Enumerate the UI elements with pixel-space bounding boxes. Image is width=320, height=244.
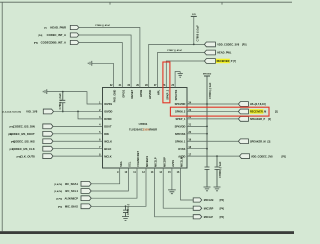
- ground G7 pin15: [168, 190, 176, 194]
- svg-text:AVSS: AVSS: [171, 160, 175, 167]
- wire HEAD_PWL net: [158, 53, 205, 88]
- svg-text:CODEC_I2S_DIN: CODEC_I2S_DIN: [13, 125, 35, 129]
- junction SPKVDD pin21: [206, 125, 208, 127]
- wire RECEIVER_M net: [187, 110, 238, 112]
- svg-text:HEAD_PWL: HEAD_PWL: [217, 51, 232, 55]
- connector HEAD_PWL: [204, 50, 215, 55]
- selection box pin26 SPKP_2: [163, 62, 170, 103]
- wire CODECDBB_INT_A net: [79, 43, 122, 88]
- ground G1 left-facing: [88, 61, 92, 66]
- wire VIO_1V8 to pin2: [54, 110, 103, 112]
- wire DVDD branch: [78, 111, 103, 118]
- wire CODEC_I2S_DOUT to IC: [53, 133, 103, 135]
- wire SPEAKER_M net: [187, 140, 238, 142]
- svg-text:[3,4,P4]: [3,4,P4]: [54, 183, 62, 186]
- junction SPKVDD pin24: [206, 103, 208, 105]
- svg-text:[3]: [3]: [268, 119, 271, 121]
- svg-text:SPKVSS: SPKVSS: [174, 90, 178, 101]
- svg-text:[3]: [3]: [275, 112, 278, 114]
- wire MIC1LP net: [155, 168, 194, 217]
- svg-text:WCLK: WCLK: [104, 139, 112, 143]
- connector CODEC_INT_A: [70, 33, 79, 37]
- wire VDD_CODEC_2V8 net: [187, 155, 240, 157]
- svg-text:MIC1RP: MIC1RP: [162, 157, 166, 167]
- wire pin25 SPKVSS stub: [175, 72, 180, 88]
- IC U7801 body TLV320AIC3100IRHBR: [103, 88, 188, 169]
- wire CLK_OUT8 to IC: [53, 155, 103, 157]
- wire CODEC_I2S_WS to IC: [53, 140, 103, 142]
- svg-text:SPKM_2: SPKM_2: [175, 110, 186, 114]
- svg-text:SPKVDD: SPKVDD: [175, 102, 186, 106]
- svg-text:SPKP_1: SPKP_1: [175, 117, 186, 121]
- connector SPEAKER_P: [238, 117, 248, 122]
- connector HEAD_PWR: [70, 25, 79, 29]
- connector CODEC_I2S_WS: [43, 139, 53, 144]
- highlight RECEIVER_P: [216, 59, 230, 64]
- wire pin15 AVSS to gnd: [171, 168, 173, 190]
- wire HS net: [187, 103, 238, 105]
- svg-text:TLV320AIC3100IRHBR: TLV320AIC3100IRHBR: [129, 127, 158, 131]
- svg-text:[3,4,P4]: [3,4,P4]: [54, 190, 62, 193]
- svg-text:SCL: SCL: [128, 161, 132, 167]
- connector MIC1LP: [193, 215, 202, 219]
- svg-text:AUX/MICP: AUX/MICP: [65, 196, 79, 200]
- wire pin20 stub: [187, 133, 207, 135]
- svg-text:CODEC_I2S_WS: CODEC_I2S_WS: [13, 139, 35, 143]
- capacitor C7802: [60, 92, 65, 112]
- svg-text:RECEIVER_P: RECEIVER_P: [217, 60, 233, 63]
- wire CODEC_I2S_CLK to IC: [53, 148, 103, 150]
- svg-text:MIC1LM: MIC1LM: [180, 157, 184, 167]
- svg-text:[P4]: [P4]: [220, 199, 225, 202]
- svg-text:RESET: RESET: [130, 89, 134, 98]
- svg-text:IOVSS: IOVSS: [104, 102, 112, 106]
- capacitor C7804: [123, 206, 128, 216]
- svg-text:DIN: DIN: [104, 132, 109, 136]
- svg-text:[P4]: [P4]: [220, 207, 225, 210]
- wire CODEC_I2S_DIN to IC: [53, 125, 103, 127]
- svg-text:C7805 (-) 1uF: C7805 (-) 1uF: [196, 25, 200, 42]
- svg-text:CODEC_I2S_CLK: CODEC_I2S_CLK: [12, 147, 35, 151]
- svg-text:C7802 (-) 1uF: C7802 (-) 1uF: [58, 93, 62, 110]
- wire MIC_BIAS net: [91, 168, 146, 206]
- svg-text:DVDD: DVDD: [104, 117, 111, 121]
- svg-text:OVSS: OVSS: [178, 147, 185, 151]
- junction C7802 bottom: [62, 111, 64, 113]
- svg-text:[P4]: [P4]: [220, 216, 225, 219]
- svg-text:CODEC_I2S_DOUT: CODEC_I2S_DOUT: [10, 132, 35, 136]
- svg-text:MICBIAS: MICBIAS: [145, 156, 149, 167]
- wire MIC1RP net: [163, 168, 193, 208]
- capacitor C7805 lead: [193, 16, 195, 44]
- svg-text:RECEIVER_M: RECEIVER_M: [250, 111, 266, 114]
- svg-text:BCLK: BCLK: [104, 147, 111, 151]
- ground G4: [122, 217, 129, 221]
- svg-text:DOUT: DOUT: [104, 125, 112, 129]
- svg-text:GPIO1: GPIO1: [121, 89, 125, 97]
- junction C7808 top: [216, 155, 218, 157]
- wire pin32 PAD_GND stub: [113, 63, 115, 87]
- svg-text:SPKM_1: SPKM_1: [175, 139, 186, 143]
- connector AUX/MICP: [81, 196, 91, 201]
- junction DVDD branch: [77, 111, 79, 113]
- wire HEAD_PWR net: [79, 28, 140, 88]
- wire VDD_CODEC_3V8 net: [149, 44, 205, 87]
- svg-text:MIC1RP: MIC1RP: [204, 207, 214, 210]
- connector RECEIVER_P: [204, 59, 215, 64]
- svg-text:[P4]: [P4]: [58, 206, 62, 209]
- svg-text:[P5]: [P5]: [282, 156, 287, 158]
- wire gnd to pin1: [47, 92, 103, 104]
- selection box RECEIVER_M row: [170, 107, 269, 116]
- sheet border left: [1, 2, 3, 231]
- svg-text:SPKVSS: SPKVSS: [175, 132, 186, 136]
- svg-text:HPVDD: HPVDD: [148, 90, 152, 99]
- wire I2C_SCL1 net: [91, 168, 128, 191]
- connector HS: [238, 102, 248, 107]
- svg-text:SPEAKER_P: SPEAKER_P: [250, 118, 265, 121]
- svg-text:VDD_CODEC_2V8: VDD_CODEC_2V8: [251, 155, 273, 158]
- highlight RECEIVER_M: [250, 109, 264, 114]
- svg-text:IOVDD: IOVDD: [104, 110, 112, 114]
- svg-text:VOL/MICDET: VOL/MICDET: [136, 150, 140, 166]
- wire I2C_SDA1 net: [91, 168, 119, 184]
- svg-text:[P4]: [P4]: [38, 34, 42, 37]
- svg-text:HPL: HPL: [157, 89, 161, 95]
- connector CODEC_I2S_CLK: [43, 146, 53, 151]
- svg-text:[3]: [3]: [268, 141, 271, 143]
- svg-text:MCLK: MCLK: [104, 154, 112, 158]
- svg-text:C7806 (-) 1uF: C7806 (-) 1uF: [208, 82, 212, 99]
- connector CODEC_I2S_DOUT: [43, 131, 53, 136]
- bottom window bar: [0, 231, 294, 234]
- svg-text:VIO_1V8: VIO_1V8: [26, 110, 38, 114]
- ground G6: [214, 187, 221, 191]
- svg-text:[P5]: [P5]: [242, 45, 247, 47]
- svg-text:C7804 (-): C7804 (-): [126, 204, 130, 215]
- svg-text:[3,P4]: [3,P4]: [56, 197, 62, 200]
- junction power VDD wire: [193, 44, 195, 46]
- svg-text:[P4]: [P4]: [34, 42, 38, 45]
- wire SPEAKER_P net: [187, 118, 238, 120]
- svg-text:MIC_BIAS: MIC_BIAS: [65, 205, 78, 209]
- svg-text:[7]: [7]: [44, 28, 47, 30]
- connector SPEAKER_M: [238, 139, 248, 144]
- svg-text:I2C_SCL1: I2C_SCL1: [65, 189, 78, 193]
- junction C7804 top: [125, 205, 127, 207]
- svg-text:HEAD_PWR: HEAD_PWR: [50, 26, 66, 30]
- svg-text:SPKVDD: SPKVDD: [203, 73, 212, 75]
- ground G5: [204, 187, 211, 191]
- svg-text:SPKVDD: SPKVDD: [175, 125, 186, 129]
- wire pin21 stub: [187, 125, 207, 127]
- svg-text:C7806 (-) 47uF: C7806 (-) 47uF: [95, 24, 111, 27]
- connector RECEIVER_M: [238, 109, 248, 114]
- connector CODECDBB_INT_A: [70, 40, 79, 44]
- svg-text:SPEAKER_M: SPEAKER_M: [250, 140, 266, 143]
- svg-text:I2C_SDA1: I2C_SDA1: [65, 182, 79, 186]
- connector VIO_1V8: [43, 109, 53, 114]
- svg-text:CODECDBB_INT_A: CODECDBB_INT_A: [41, 41, 66, 45]
- svg-text:[1,2,3,4,6,7,8,10,16]: [1,2,3,4,6,7,8,10,16]: [2, 111, 21, 114]
- svg-text:MIC1LM: MIC1LM: [204, 199, 214, 202]
- connector MIC1LM: [193, 198, 202, 202]
- svg-text:HS+[2,7,8,16]: HS+[2,7,8,16]: [250, 103, 266, 106]
- connector CODEC_I2S_DIN: [43, 124, 53, 129]
- wire pin18 stub: [187, 148, 207, 150]
- svg-text:CLK_OUT8: CLK_OUT8: [20, 154, 35, 158]
- connector I2C_SDA1: [81, 181, 91, 186]
- ground G3 left-facing: [43, 89, 47, 94]
- svg-text:MIC1LP: MIC1LP: [204, 216, 214, 219]
- wire CODEC_INT_A net: [79, 35, 131, 88]
- capacitor C7806 vertical: [205, 76, 210, 187]
- svg-text:C7808 (-) 1uF: C7808 (-) 1uF: [218, 161, 222, 178]
- wire RECEIVER_P net: [166, 61, 204, 88]
- svg-text:HPFB: HPFB: [139, 90, 143, 97]
- svg-text:U7801: U7801: [139, 122, 148, 126]
- connector MIC_BIAS: [81, 204, 91, 209]
- svg-text:PAD_GND: PAD_GND: [113, 90, 117, 103]
- svg-text:C7807 (-) 47uF: C7807 (-) 47uF: [167, 49, 183, 52]
- connector I2C_SCL1: [81, 189, 91, 194]
- junction C7802 top: [62, 91, 64, 93]
- wire AUX/MICP net: [91, 168, 137, 198]
- svg-text:CODEC_INT_A: CODEC_INT_A: [47, 33, 66, 37]
- svg-text:VDD_CODEC_3V8: VDD_CODEC_3V8: [217, 43, 240, 47]
- svg-text:SPKP_2: SPKP_2: [165, 89, 169, 100]
- svg-text:[7]: [7]: [233, 61, 236, 63]
- junction pin18: [206, 148, 208, 150]
- ground G2 at pin25: [179, 72, 181, 74]
- capacitor C7808: [215, 156, 220, 187]
- sheet border top: [0, 2, 292, 4]
- connector VDD_CODEC_2V8: [240, 154, 250, 159]
- connector MIC1RP: [193, 206, 202, 210]
- connector CLK_OUT8: [43, 154, 53, 159]
- svg-text:MIC1LP: MIC1LP: [154, 157, 158, 167]
- wire MIC1LM net: [181, 168, 194, 200]
- connector VDD_CODEC_3V8: [204, 42, 215, 47]
- svg-text:SDA: SDA: [119, 161, 123, 167]
- wire ground to pin32: [92, 62, 114, 64]
- junction pin20: [206, 133, 208, 135]
